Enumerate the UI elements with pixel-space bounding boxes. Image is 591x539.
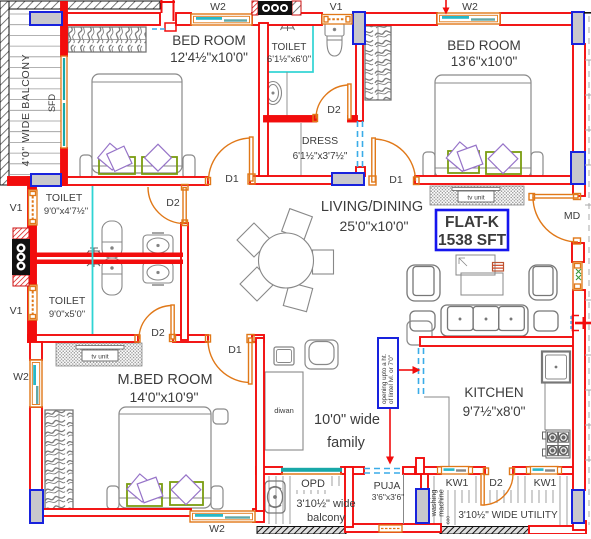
sofa 3 seat — [441, 305, 528, 336]
svg-text:D2: D2 — [489, 477, 503, 489]
column dress — [332, 173, 364, 185]
toilet top: tap — [281, 25, 295, 31]
blue window utility left — [416, 489, 429, 523]
toilet top: wc — [325, 23, 344, 56]
wall kitchen bottom mid2 — [513, 467, 530, 474]
door D1 bedroom1 — [206, 137, 256, 185]
kitchen sink — [542, 352, 570, 383]
column top middle — [353, 12, 365, 44]
svg-text:3'10½" WIDE UTILITY: 3'10½" WIDE UTILITY — [458, 510, 558, 521]
window KW1 left — [438, 467, 473, 475]
wall toilets left — [28, 177, 36, 342]
small room labels — [44, 42, 558, 524]
wall top bedroom2 right — [500, 13, 573, 25]
wall kitchen bottom left — [415, 467, 441, 474]
red service marker right wall — [571, 316, 591, 331]
svg-text:tv unit: tv unit — [467, 195, 485, 202]
toilet top: shower box — [264, 25, 313, 72]
wall passage-toilets — [181, 223, 188, 340]
sofa side table right — [534, 311, 558, 331]
toilet top: partition line — [286, 72, 288, 116]
svg-text:25'0"x10'0": 25'0"x10'0" — [339, 218, 408, 234]
wall toilets divider a — [36, 253, 183, 258]
window opd teal — [281, 468, 342, 474]
svg-text:tv unit: tv unit — [91, 354, 109, 361]
svg-text:D1: D1 — [389, 174, 403, 186]
wall right exterior md-top — [573, 184, 585, 196]
svg-text:9'7½"x8'0": 9'7½"x8'0" — [463, 404, 526, 419]
balcony label text — [20, 54, 32, 167]
bed bedroom2 — [423, 75, 543, 178]
wall bedroom1 bottom — [62, 177, 208, 185]
window W2 top-right — [437, 13, 500, 24]
bed1 cushion boxes — [99, 157, 177, 174]
vertical small texts — [47, 93, 452, 524]
svg-text:D2: D2 — [166, 197, 180, 209]
svg-text:9'0"x4'7½": 9'0"x4'7½" — [44, 206, 88, 217]
svg-text:W2: W2 — [210, 1, 226, 13]
OPD balcony floor lines — [269, 476, 353, 524]
svg-text:13'6"x10'0": 13'6"x10'0" — [451, 54, 518, 69]
svg-text:D2: D2 — [151, 327, 165, 339]
wall toilet-top left — [259, 23, 268, 176]
wall kitchen bottom mid1 — [469, 467, 485, 474]
svg-text:V1: V1 — [330, 1, 343, 13]
svg-text:FLAT-K: FLAT-K — [445, 214, 500, 231]
svg-text:balcony: balcony — [307, 512, 345, 524]
svg-text:W2: W2 — [13, 371, 29, 383]
svg-text:D1: D1 — [228, 344, 242, 356]
svg-text:D1: D1 — [225, 173, 239, 185]
svg-text:12'4½"x10'0": 12'4½"x10'0" — [170, 50, 248, 65]
utility floor lines — [434, 476, 574, 525]
red arrow opening down — [386, 409, 394, 465]
red arrow opening right — [398, 366, 421, 374]
svg-text:LIVING/DINING: LIVING/DINING — [321, 199, 423, 215]
svg-text:14'0"x10'9": 14'0"x10'9" — [129, 389, 198, 405]
svg-text:4'0" WIDE BALCONY: 4'0" WIDE BALCONY — [20, 54, 32, 167]
cyan dashed opening kitchen left — [419, 348, 424, 397]
svg-text:opening upto a ht.: opening upto a ht. — [381, 353, 388, 404]
balcony hatched border left — [0, 1, 9, 185]
svg-text:3'10½" wide: 3'10½" wide — [296, 498, 355, 510]
tv unit bedroom2 — [430, 186, 524, 205]
cyan dashed opening puja top — [364, 469, 403, 474]
column top balcony — [30, 12, 62, 25]
wall right exterior upper — [573, 44, 585, 152]
ventilator above main door right — [573, 262, 582, 290]
svg-text:TOILET: TOILET — [49, 295, 86, 307]
wall bedroom2 left — [356, 44, 363, 121]
door D2 toilet1 left — [148, 185, 188, 226]
svg-text:machine: machine — [437, 489, 446, 517]
wall mbed left lower — [30, 407, 42, 490]
bed2 cushion boxes — [448, 151, 521, 174]
wall kitchen bottom right — [558, 467, 573, 474]
toilet top: basin — [265, 82, 282, 105]
wall bedroom2 bottom — [415, 176, 573, 184]
washing machine opd — [265, 481, 285, 513]
top-left neighbour wall stub — [160, 0, 176, 31]
kitchen stove — [543, 430, 571, 458]
column balcony bottom — [31, 174, 61, 186]
mbed cushion boxes — [127, 482, 203, 506]
tv red — [493, 263, 504, 272]
tv unit mbed — [56, 343, 142, 366]
svg-text:DRESS: DRESS — [302, 135, 338, 147]
wall mbed top middle — [173, 335, 208, 342]
door D2 toilet-top — [313, 84, 351, 122]
wall toilets divider b — [36, 260, 183, 265]
centre table + tv — [456, 255, 503, 295]
wall family left — [256, 338, 264, 511]
mbed side table — [213, 409, 228, 424]
wall balcony right lower — [61, 148, 67, 185]
wall kitchen top — [420, 337, 574, 346]
svg-text:D2: D2 — [327, 104, 341, 116]
column mbed bottom-left — [30, 490, 43, 523]
wall top bedroom2 left — [365, 13, 437, 25]
wall utility left low — [421, 474, 428, 490]
wall mbed bottom — [42, 509, 191, 516]
balcony hatched border top — [0, 1, 160, 9]
family side table near kitchen — [407, 321, 432, 345]
wall bedroom2 left stub — [356, 167, 365, 176]
svg-text:PUJA: PUJA — [374, 480, 401, 492]
bed bedroom1 — [80, 74, 195, 179]
puja right gray line — [403, 474, 405, 524]
svg-text:of lintel lvl. or 7'0": of lintel lvl. or 7'0" — [388, 355, 395, 404]
svg-text:family: family — [327, 435, 366, 451]
sliding door SFD balcony — [61, 56, 67, 148]
ventilator V1 top — [322, 15, 352, 25]
family armchair — [305, 340, 338, 369]
flat label box — [436, 210, 508, 250]
svg-text:3'6"x3'6": 3'6"x3'6" — [372, 492, 404, 502]
cyan dashed opening dress east — [358, 121, 363, 168]
door D1 mbed — [206, 335, 255, 385]
wall right exterior bottom pier — [573, 521, 586, 530]
column top right — [572, 12, 584, 44]
wall mbed top right — [252, 335, 264, 342]
main door MD — [529, 194, 581, 245]
wall family bottom left — [256, 467, 282, 474]
wall family bottom mid — [341, 467, 364, 474]
svg-text:BED ROOM: BED ROOM — [172, 33, 246, 48]
svg-text:MD: MD — [564, 210, 581, 222]
wall top bedroom1 — [62, 13, 160, 25]
svg-text:KITCHEN: KITCHEN — [464, 385, 523, 400]
toilets left: basins — [143, 233, 173, 285]
room labels — [117, 33, 525, 451]
svg-text:OPD: OPD — [301, 478, 325, 490]
cyan shower line toilets left — [92, 186, 94, 334]
note box opening — [378, 338, 398, 408]
kitchen counters — [424, 382, 545, 466]
bed2 pillows — [446, 142, 518, 174]
svg-text:SFD: SFD — [47, 93, 57, 112]
door D2 utility — [481, 468, 515, 505]
wardrobe bedroom2 — [365, 26, 391, 100]
svg-text:V1: V1 — [10, 305, 23, 317]
wall puja left — [345, 467, 353, 527]
sofa armchair right — [529, 265, 557, 300]
svg-text:KW1: KW1 — [534, 477, 557, 489]
wall mbed bottom right pier — [253, 509, 264, 522]
svg-text:M.BED ROOM: M.BED ROOM — [117, 372, 212, 388]
wall balcony bottom — [8, 177, 32, 185]
wall dress bottom — [250, 176, 332, 184]
wall top toilet — [252, 13, 322, 25]
wall top W2a-left pier — [176, 13, 191, 25]
wall kitchen-utility left — [416, 458, 424, 474]
grill left toilets (3 circles) — [12, 228, 30, 286]
bottom hatched parapet left — [257, 527, 346, 535]
wall puja bottom — [345, 524, 441, 532]
mbed pillows — [127, 474, 201, 505]
red arrow top window — [443, 0, 450, 15]
door D2 toilet2 left — [135, 305, 176, 342]
door D1 bedroom2 — [369, 138, 419, 185]
bed mbed — [107, 407, 223, 509]
window W2 mbed bottom — [190, 511, 255, 522]
bed1 pillows — [98, 143, 172, 171]
window W2 top-left — [191, 14, 252, 25]
blue window right bedroom2 — [571, 152, 585, 184]
blue window utility right — [572, 490, 584, 523]
svg-text:diwan: diwan — [274, 406, 294, 415]
sofa side table left — [410, 311, 435, 331]
wardrobe mbed — [45, 410, 73, 510]
wall toilet-top bottom — [264, 116, 316, 122]
wall utility bottom right corner — [529, 526, 586, 534]
black line top right corner — [584, 12, 591, 14]
main door jamb box — [572, 243, 584, 262]
balcony floor lines — [10, 14, 61, 175]
svg-text:10'0" wide: 10'0" wide — [314, 412, 380, 428]
sofa armchair left — [407, 265, 440, 301]
toilets left: wc pair — [102, 221, 122, 295]
ventilator V1 toilet2 left — [29, 285, 38, 320]
svg-text:1538 SFT: 1538 SFT — [438, 232, 507, 249]
window puja bottom — [379, 525, 402, 532]
property dashed line right — [585, 16, 591, 525]
wall right exterior mid — [573, 290, 585, 490]
svg-text:9'0"x5'0": 9'0"x5'0" — [49, 309, 85, 320]
grill top (3 circles) — [252, 1, 301, 15]
svg-text:TOILET: TOILET — [272, 42, 307, 53]
dining table — [237, 209, 333, 312]
svg-text:V1: V1 — [10, 202, 23, 214]
neighbour cyan dashed opening top-left — [152, 28, 165, 30]
diwan family — [265, 372, 303, 450]
svg-text:KW1: KW1 — [446, 477, 469, 489]
svg-text:W2: W2 — [209, 523, 225, 534]
svg-text:TOILET: TOILET — [46, 192, 83, 204]
window W2 mbed left — [30, 360, 42, 407]
window KW1 right — [527, 467, 562, 475]
wall family bottom right — [403, 467, 418, 474]
wall mbed left upper — [30, 342, 42, 360]
bottom hatched parapet right — [440, 527, 530, 535]
family square table — [274, 347, 294, 365]
dress divider line — [300, 123, 302, 176]
svg-text:BED ROOM: BED ROOM — [447, 38, 521, 53]
ventilator V1 toilet1 left — [29, 190, 38, 225]
wall balcony right upper — [61, 2, 67, 56]
svg-text:6'1½"x6'0": 6'1½"x6'0" — [267, 54, 311, 65]
wall toilet-top bottom jamb — [348, 116, 357, 122]
wall toilet2 bottom left — [28, 335, 138, 342]
svg-text:W2: W2 — [462, 1, 478, 13]
taps on divider — [87, 248, 100, 267]
svg-text:600: 600 — [446, 516, 452, 524]
svg-text:6'1½"x3'7½": 6'1½"x3'7½" — [293, 151, 348, 162]
wardrobe bedroom1 — [68, 27, 146, 52]
